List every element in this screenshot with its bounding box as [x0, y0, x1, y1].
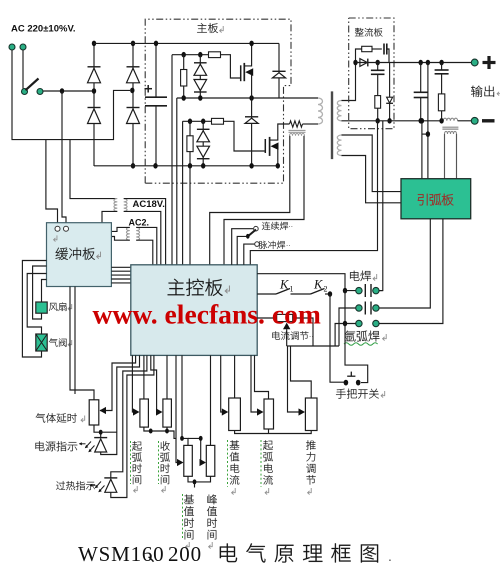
- transformer T4 secondary winding: [445, 131, 457, 134]
- wire R4 top stub: [189, 121, 191, 136]
- wire T2 secondary top to control board: [124, 199, 166, 265]
- label 电流调节 dots: [309, 330, 313, 339]
- transformer T5 secondary winding: [136, 227, 139, 240]
- diode D2 bridge lower-left: [88, 108, 101, 124]
- label AC2.: [129, 218, 150, 228]
- junction bridge col2 top: [131, 41, 135, 47]
- wire igniter out 2 to contact row3: [379, 219, 443, 324]
- wire fan bottom loop: [33, 266, 47, 319]
- wire Q1 source rail to bottom rail: [251, 98, 253, 166]
- transformer T2 secondary winding: [124, 199, 127, 212]
- RP8 wiper arrow: [299, 408, 306, 415]
- wire + rail to igniter: [427, 63, 429, 179]
- LED1 arrows: [85, 442, 95, 453]
- return mark after 主控板: [225, 285, 229, 293]
- junction lower row R4 top: [188, 119, 192, 125]
- label 峰值时间 vertical: [207, 494, 217, 539]
- wire bridge column 2: [132, 43, 134, 166]
- junction bus RP2: [149, 429, 153, 434]
- wire lower drive row: [183, 120, 212, 122]
- wire C5 branch: [420, 63, 422, 121]
- RP2 wiper arrow: [133, 408, 140, 415]
- wire row1 right stub: [379, 290, 383, 292]
- junction cap C1 bottom: [153, 163, 157, 169]
- arrow mark before LED1: [79, 442, 86, 445]
- junction Q1 drain on top rail: [249, 41, 253, 47]
- return mark below 推力调节: [308, 488, 312, 495]
- resistor R4 vertical: [187, 136, 193, 152]
- green mark 基值电流: [227, 440, 229, 487]
- label 脉冲焊: [259, 241, 285, 249]
- junction node A secondary top: [353, 60, 357, 66]
- wire R7 to C3: [372, 48, 382, 50]
- junction - rail at C5: [419, 118, 423, 124]
- label 基值时间 vertical: [184, 494, 194, 539]
- board outline 整流板 (rectifier board): [349, 18, 394, 129]
- resistor R8 bleeder: [375, 96, 381, 109]
- return mark after 主板: [220, 26, 224, 33]
- wire RP1 bottom to LED1: [94, 425, 101, 438]
- wire from node x62 down to buffer terminal 2: [62, 91, 66, 226]
- wire feed upper source rail to control board: [176, 98, 178, 265]
- squiggle under 氩弧焊: [344, 343, 378, 346]
- wire L1 down-right-up to bridge node D: [12, 50, 130, 140]
- label 电焊: [350, 271, 371, 281]
- label 引弧板: [418, 194, 454, 206]
- wire buffer to control board bundle: [111, 267, 130, 283]
- capacitor C4 filter: [371, 70, 385, 74]
- label 风扇: [49, 302, 67, 311]
- wire T4 leg 2 to igniter: [456, 134, 458, 179]
- junction bridge col1 top: [92, 41, 96, 47]
- junction bridge col1 mid: [92, 88, 96, 94]
- wire inductor to - terminal: [458, 120, 472, 122]
- diode D3 bridge upper-right: [127, 67, 140, 83]
- wire T5 secondary bottom to control board: [136, 240, 153, 265]
- wire row3 left lead: [335, 324, 356, 347]
- junction lower row D9 top: [201, 119, 205, 125]
- RP3 wiper arrow: [156, 408, 163, 415]
- junction + rail at C6: [439, 60, 443, 66]
- junction R2 bottom on rail: [182, 95, 186, 101]
- junction D6 bottom on rail: [198, 95, 202, 101]
- wire wiper bus: [287, 345, 339, 347]
- wire zigzag to primary bottom: [303, 123, 319, 125]
- wire T3 leg 2 to control board: [224, 136, 304, 265]
- LED D14 overheat indicator: [104, 478, 117, 492]
- wire buffer board to RP1 top: [70, 287, 94, 400]
- wire R8 to - rail: [377, 108, 379, 121]
- junction RP4 RP5 bottom: [193, 479, 197, 484]
- wire J2 to handle switch right: [345, 324, 368, 383]
- transformer T1 primary winding: [318, 98, 323, 124]
- transformer T1 core: [331, 91, 333, 159]
- label AC18V.: [133, 199, 165, 210]
- diode D11 output rectifier: [360, 59, 368, 67]
- label 整流板: [355, 28, 383, 37]
- diode D1 bridge upper-left: [88, 67, 101, 83]
- wire T5 secondary top to control board: [136, 227, 157, 264]
- board outline 主板 (main board): [145, 19, 291, 183]
- terminal buffer input 1: [55, 226, 60, 231]
- wire igniter out 1 to contact row2: [379, 219, 430, 308]
- junction RP5 wiper net: [199, 436, 203, 441]
- wire - rail to contact row1 right: [379, 121, 383, 291]
- potentiometer RP5 峰值时间: [206, 445, 215, 476]
- label 推力调节 vertical: [306, 440, 316, 484]
- wire RP9 right lead: [293, 318, 313, 346]
- wire control board to RP3 wiper: [151, 355, 157, 412]
- switch K1 blade: [276, 289, 311, 295]
- wire RP4 RP5 bottoms: [188, 476, 211, 487]
- watermark www.elecfans.com: [93, 299, 321, 330]
- label 手把开关: [336, 389, 379, 399]
- wire valve top loop: [27, 274, 46, 335]
- junction igniter feed bridge: [426, 131, 430, 137]
- junction D12 bottom on - rail: [387, 118, 391, 124]
- wire igniter feed bridge: [422, 133, 428, 135]
- diode D8 clamp: [245, 117, 258, 124]
- wire tap L1 to buffer terminal 1: [46, 140, 58, 226]
- wire J2 down to row3: [344, 291, 346, 324]
- RP1 wiper arrow: [100, 407, 107, 414]
- board 主控板 (main control board): [131, 265, 257, 356]
- contact row2 left circle: [356, 305, 362, 311]
- node junction at x62: [60, 88, 64, 94]
- junction LED1 top: [99, 430, 103, 435]
- wire DC+ top rail: [94, 42, 279, 44]
- resistor R2 vertical: [181, 70, 187, 87]
- junction bridge col2 bottom: [131, 163, 135, 169]
- transformer T1 secondary winding S2: [337, 135, 341, 156]
- wire control board to RP1 wiper: [100, 355, 136, 410]
- wire - rail to igniter: [421, 121, 423, 179]
- terminal AC L1: [9, 44, 15, 50]
- return mark below 收弧时间: [162, 486, 166, 493]
- wire control board to pot RP9: [257, 317, 277, 319]
- return mark below 峰值时间: [209, 542, 213, 549]
- potentiometer RP8 推力调节: [305, 398, 317, 431]
- return mark below 基值时间: [186, 542, 190, 549]
- junction Q1 source on rail: [249, 95, 253, 101]
- junction cap C1 top: [154, 41, 158, 47]
- wire top rail corner down to primary top: [278, 43, 280, 98]
- label 输出 (output): [471, 86, 494, 97]
- contact row1 right circle: [373, 287, 379, 293]
- junction node B diode cathode: [376, 60, 380, 66]
- title WSM160、200电气原理框图: [78, 542, 392, 566]
- return mark below 起弧电流: [265, 488, 269, 495]
- junction Q2 source on bottom rail: [276, 163, 280, 169]
- diode D10 clamp down: [197, 146, 210, 159]
- return mark after 氩弧焊: [383, 334, 387, 341]
- board 引弧板 (arc igniter): [401, 179, 471, 219]
- resistor R9 output: [438, 94, 444, 111]
- wire C4 to R8: [377, 74, 379, 95]
- wire control board to RP6 top: [234, 355, 236, 398]
- RP7 wiper arrow: [257, 408, 264, 415]
- wire row2 left lead: [339, 308, 356, 346]
- wire D9 D10 column: [202, 121, 204, 166]
- wire R5 to gate Q2: [224, 121, 265, 151]
- wire feed R4 bottom to control board: [189, 166, 191, 265]
- switch S1 contact b: [37, 89, 43, 95]
- contact row2 bars: [365, 302, 371, 315]
- resistor R7 snubber: [362, 46, 372, 51]
- label 连续焊: [262, 222, 288, 230]
- potentiometer RP7 起弧电流: [264, 399, 274, 429]
- terminal buffer input 2: [64, 226, 69, 231]
- svg-text:AC2.: AC2.: [129, 218, 150, 228]
- junction row3 at J2: [343, 321, 347, 327]
- wire LED2 top feed: [111, 355, 147, 478]
- switch S1 blade: [26, 79, 39, 91]
- junction R8 bottom on - rail: [376, 118, 380, 124]
- junction + rail at igniter feed: [426, 60, 430, 66]
- junction bus RP3: [165, 429, 169, 434]
- wire to RP7 top: [255, 355, 269, 399]
- green mark 基值时间: [182, 494, 184, 539]
- wire T5 primary bottom to buffer board: [111, 237, 129, 241]
- component 气阀 gas valve box: [36, 334, 47, 351]
- junction D10 bottom on rail: [201, 163, 205, 169]
- wire to pulse weld contact: [244, 244, 255, 265]
- junction upper row R2 top: [182, 52, 186, 58]
- wire control board to K1: [257, 293, 276, 295]
- switch K2 blade: [311, 289, 331, 295]
- return mark after 缓冲板: [97, 252, 101, 259]
- wire + output rail: [394, 62, 472, 64]
- junction + rail at C5: [419, 60, 423, 66]
- svg-text:AC 220±10%V.: AC 220±10%V.: [11, 24, 76, 35]
- inductor L1 in - lead: [443, 118, 457, 121]
- junction - rail at L1: [439, 118, 443, 124]
- svg-text:WSM160: WSM160: [78, 542, 164, 566]
- label 电流调节: [272, 331, 308, 340]
- LED2 arrows: [95, 482, 105, 493]
- junction RP4 top net: [180, 436, 184, 441]
- wire LED2 bottom return: [111, 355, 154, 497]
- symbol - output: [482, 119, 495, 122]
- handle switch right dot: [356, 380, 361, 386]
- wire control board to RP2 top: [143, 355, 145, 399]
- svg-text:.: .: [388, 548, 392, 564]
- junction K2 output: [328, 291, 332, 297]
- svg-text:..: ..: [309, 330, 313, 339]
- wire control board to RP5 top: [210, 355, 212, 445]
- wire switch to bridge node C: [43, 90, 94, 92]
- potentiometer RP4 基值时间: [184, 445, 193, 476]
- handle switch left dot: [344, 380, 349, 386]
- resistor R6 zigzag in primary bottom lead: [290, 121, 303, 127]
- wire C3 right down to + line: [387, 49, 389, 63]
- terminal AC L2: [20, 44, 26, 50]
- svg-text:www. elecfans. com: www. elecfans. com: [93, 299, 321, 330]
- green mark 起弧时间: [130, 441, 132, 484]
- label 连续焊 dots: [289, 220, 293, 229]
- wire T2 primary bottom to buffer board: [102, 211, 117, 222]
- wire RP6 RP7 RP8 bottom bus: [235, 429, 312, 434]
- board 缓冲板 (buffer board): [47, 223, 112, 287]
- return mark after 电焊: [373, 274, 377, 281]
- wire D5 D6 column: [199, 55, 201, 98]
- junction R4 bottom on rail: [188, 163, 192, 169]
- wire RP4 net to RP5 wiper: [188, 438, 201, 462]
- diode D12 zener: [386, 97, 393, 121]
- return mark below 起弧时间: [134, 486, 138, 493]
- label K1: [279, 278, 294, 294]
- wire node B filter branch: [377, 63, 379, 71]
- resistor R5 gate series: [212, 118, 224, 124]
- wire T5 primary top to buffer board: [111, 227, 129, 231]
- wire secondary S1 top lead to + node: [342, 63, 356, 101]
- wire secondary S2 bottom to igniter stub: [342, 156, 402, 203]
- return mark in buffer board: [54, 235, 57, 241]
- contact row3 left circle: [356, 320, 362, 326]
- label 气体延时: [36, 413, 77, 423]
- return mark after 手把开关: [381, 391, 385, 398]
- wire upper drive row: [172, 54, 209, 56]
- wire T2 secondary bottom to control board: [124, 211, 161, 264]
- wire T4 leg 1 to igniter: [444, 134, 446, 179]
- wire + line inside rectifier board: [356, 62, 395, 64]
- diode D5 clamp up: [194, 63, 207, 76]
- wire control board to contact row1: [257, 274, 356, 291]
- label 主板: [197, 23, 218, 33]
- wire R2 bottom stub: [183, 86, 185, 98]
- capacitor C1 electrolytic: [145, 97, 167, 106]
- diode D7 clamp: [272, 71, 285, 78]
- label 氩弧焊: [345, 331, 380, 342]
- wire tap L1 to transformer T2 primary: [70, 140, 116, 199]
- potentiometer RP6 基值电流: [229, 398, 241, 431]
- transformer T1 secondary winding S1: [337, 101, 341, 121]
- wire C6 R9 branch: [441, 63, 443, 121]
- wire bus346 to RP8 top: [291, 346, 312, 398]
- wire T3 leg 1 to control board: [210, 136, 290, 265]
- wire cap C1 top: [155, 43, 157, 97]
- wire buffer board aux drop: [74, 287, 76, 395]
- wire cap C1 bottom: [155, 106, 157, 166]
- symbol + output: [483, 56, 496, 69]
- LED D13 power indicator: [94, 438, 107, 452]
- svg-text:200: 200: [168, 542, 202, 566]
- svg-text:..: ..: [289, 220, 293, 229]
- terminal output +: [471, 59, 478, 66]
- potentiometer RP1 气体延时: [89, 400, 99, 425]
- RP9 wiper arrow: [283, 323, 290, 346]
- label 过热指示: [56, 481, 95, 490]
- resistor R3 gate series: [209, 52, 221, 58]
- transformer T5 primary winding: [126, 227, 129, 240]
- green mark 起弧电流: [260, 440, 262, 487]
- wire upper source rail / primary top: [177, 97, 318, 99]
- label AC 220±10%V: [11, 24, 76, 35]
- potentiometer RP2 起弧时间: [140, 399, 149, 427]
- capacitor C5 output: [414, 92, 428, 97]
- junction upper row D5 top: [198, 52, 202, 58]
- wire valve bottom loop: [22, 261, 46, 358]
- wire - rail to control board via nest: [250, 121, 377, 265]
- return mark after 输出: [497, 89, 500, 96]
- wire K2 to handle switch: [330, 294, 344, 382]
- wire L2 down to switch: [22, 50, 24, 89]
- wire bus346 to RP8 wiper: [288, 346, 299, 412]
- label 缓冲板: [56, 248, 95, 260]
- contact row3 right circle: [373, 320, 379, 326]
- arrow mark before LED2: [89, 484, 95, 487]
- wire fan top: [42, 280, 47, 303]
- return mark after 风扇: [68, 304, 72, 311]
- return mark after 气体延时: [81, 416, 85, 423]
- return mark after 气阀: [68, 340, 72, 347]
- junction D8 bottom on rail: [249, 163, 253, 169]
- junction row1 left: [343, 288, 347, 294]
- wire - output rail: [342, 120, 444, 122]
- wire RC snubber top branch: [356, 49, 362, 63]
- label 主控板: [168, 279, 223, 296]
- wire RP1 bus right: [101, 431, 117, 433]
- label 起弧电流 vertical: [263, 440, 273, 484]
- terminal output -: [471, 117, 478, 124]
- contact row1 left circle: [356, 287, 362, 293]
- wire R3 to gate Q1: [221, 55, 241, 78]
- wire control board to RP4 top: [182, 355, 188, 445]
- wire zener branch: [389, 63, 391, 97]
- label 脉冲焊 dots: [286, 239, 290, 248]
- wire control board to RP6 wiper: [221, 355, 222, 412]
- potentiometer RP3 收弧时间: [163, 399, 172, 427]
- wire DC- bottom rail: [94, 165, 278, 167]
- transistor Q1 MOSFET upper: [241, 43, 254, 98]
- wire RP2 RP3 bottom bus: [144, 427, 176, 438]
- diode D4 bridge lower-right: [127, 108, 140, 124]
- switch 脉冲焊 contact: [255, 242, 260, 247]
- transformer T4 core bars: [442, 127, 458, 129]
- contact row2 right circle: [373, 305, 379, 311]
- wire bridge column 1: [93, 43, 95, 166]
- label 起弧时间 vertical: [132, 441, 142, 484]
- label C1 polarity +: [145, 85, 153, 93]
- svg-text:AC18V.: AC18V.: [133, 199, 165, 210]
- diode D9 clamp up: [197, 129, 210, 142]
- wire control board to RP4 wiper: [176, 355, 177, 462]
- junction - rail igniter tap: [420, 118, 424, 124]
- wire feed upper row to control board: [171, 55, 173, 265]
- handle switch actuator: [347, 372, 355, 377]
- wire R4 bottom stub: [189, 152, 191, 166]
- diode D6 clamp down: [194, 80, 207, 93]
- capacitor C3 snubber: [384, 44, 387, 55]
- contact row1 bars: [365, 284, 371, 297]
- label 收弧时间 vertical: [160, 441, 169, 484]
- current transformer T3 core bars: [289, 130, 306, 132]
- wire feed lower row to control board: [182, 121, 184, 264]
- wire control board to RP2 wiper: [131, 355, 134, 412]
- label 气阀: [49, 338, 67, 347]
- switch S1 contact a: [22, 89, 28, 95]
- RP4 wiper arrow: [177, 459, 184, 466]
- wire to continuous weld switch: [232, 229, 254, 265]
- current transformer T3 winding: [290, 133, 305, 135]
- RP6 wiper arrow: [222, 408, 229, 415]
- wire LED1 bottom return: [101, 355, 140, 454]
- green mark 收弧时间: [158, 441, 160, 484]
- potentiometer RP9 电流调节: [277, 314, 293, 321]
- wire R2 top stub: [183, 55, 185, 70]
- label 电源指示: [35, 441, 77, 451]
- transformer T2 primary winding: [114, 199, 117, 212]
